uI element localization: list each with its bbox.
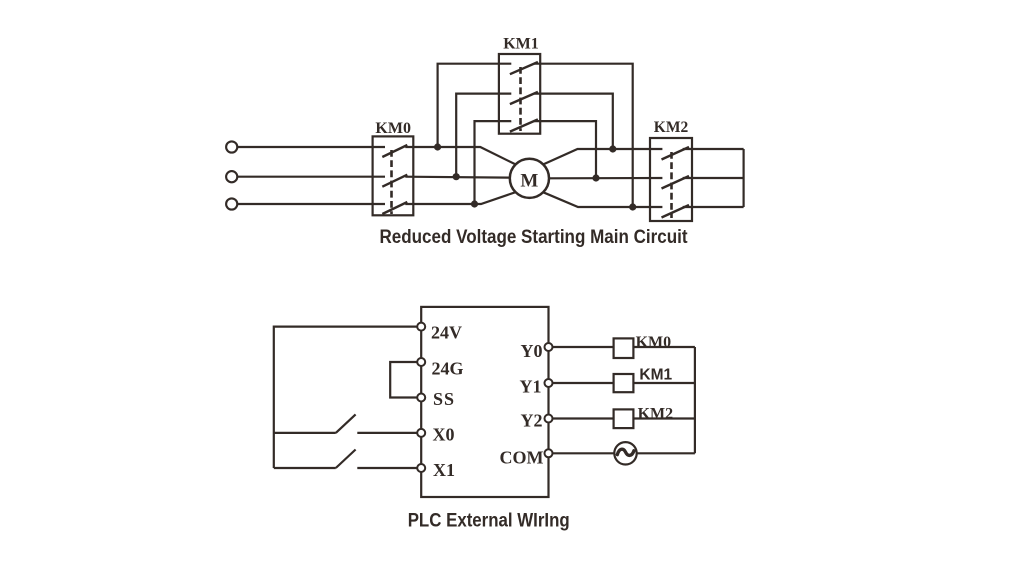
wire L3 to KM0 [237, 203, 385, 205]
contactor KM0 [373, 136, 414, 215]
wire motor to KM2 phase2 [549, 177, 662, 180]
svg-text:KM1: KM1 [503, 36, 539, 53]
wire KM1 contact1 to phase3 right [534, 64, 633, 207]
terminal SS [417, 394, 425, 402]
wire KM0 out phase1 to motor [405, 147, 515, 164]
terminal L3 [226, 198, 237, 209]
AC source [614, 442, 636, 464]
junction phase1-KM1 [434, 143, 441, 150]
wire AC source to right bus [637, 452, 695, 454]
wire coil KM0 to right bus [633, 346, 695, 348]
contactor KM1 [499, 54, 540, 134]
contactor KM2 [650, 138, 692, 221]
right bus [694, 347, 696, 453]
wire phase3 up to KM1 contact3 [475, 121, 512, 204]
svg-text:PLC External WIrIng: PLC External WIrIng [408, 511, 570, 532]
svg-text:24V: 24V [431, 323, 462, 343]
wire phase2 up to KM1 contact2 [456, 94, 511, 177]
junction phase2-KM1 [453, 173, 460, 180]
svg-text:KM0: KM0 [636, 334, 672, 351]
wire coil KM2 to right bus [633, 417, 695, 419]
wire phase1 up to KM1 contact1 [438, 64, 512, 147]
wire X1 left lead [274, 467, 336, 469]
coil KM1 [614, 374, 634, 392]
svg-text:KM0: KM0 [375, 120, 411, 137]
svg-text:Y0: Y0 [521, 341, 543, 361]
svg-text:COM: COM [500, 448, 544, 468]
wire KM1 contact2 to phase1 right [534, 94, 613, 149]
terminal L2 [226, 171, 237, 182]
terminal COM [545, 449, 553, 457]
wire KM1 contact3 to phase2 right [534, 121, 596, 178]
svg-text:KM2: KM2 [638, 406, 674, 423]
terminal X0 [417, 429, 425, 437]
wire Y2 to coil KM2 [553, 417, 614, 419]
terminal L1 [226, 141, 237, 152]
wire L1 to KM0 [237, 146, 385, 148]
PLC box [421, 307, 548, 497]
svg-text:KM2: KM2 [654, 119, 689, 136]
terminal Y0 [545, 343, 553, 351]
wire KM2 out phase2 [683, 177, 744, 179]
switch X0 blade [336, 414, 356, 433]
wire KM2 out phase1 [683, 148, 744, 150]
wire coil KM1 to right bus [633, 382, 695, 384]
svg-text:Y1: Y1 [520, 377, 542, 397]
svg-text:Reduced Voltage Starting Main: Reduced Voltage Starting Main Circuit [380, 227, 689, 248]
star point bar [742, 149, 744, 207]
coil KM2 [614, 409, 634, 428]
svg-text:KM1: KM1 [639, 367, 672, 384]
wire motor to KM2 phase1 [543, 149, 662, 164]
wire KM2 out phase3 [683, 206, 744, 208]
junction phase2 right [592, 174, 599, 181]
wire KM0 out phase2 to motor [405, 176, 510, 179]
svg-text:X1: X1 [433, 460, 455, 480]
terminal X1 [417, 464, 425, 472]
terminal 24V [417, 323, 425, 331]
wire X0 left lead [274, 432, 336, 434]
wire 24G-SS bracket [390, 362, 417, 398]
wire KM0 out phase3 to motor [405, 192, 515, 204]
wire motor to KM2 phase3 [543, 192, 662, 207]
wire COM to AC source [553, 452, 615, 454]
junction phase1 right [609, 145, 616, 152]
wire Y1 to coil KM1 [553, 382, 614, 384]
wire L2 to KM0 [237, 176, 385, 178]
svg-text:SS: SS [433, 389, 455, 409]
terminal 24G [417, 358, 425, 366]
svg-text:M: M [520, 171, 538, 192]
wire X1 right lead [357, 467, 417, 469]
junction phase3 right [629, 203, 636, 210]
wire 24V to left bus [274, 327, 417, 468]
svg-text:24G: 24G [432, 359, 464, 379]
svg-text:X0: X0 [433, 425, 455, 445]
terminal Y1 [545, 379, 553, 387]
junction phase3-KM1 [471, 200, 478, 207]
svg-text:Y2: Y2 [521, 411, 543, 431]
wire Y0 to coil KM0 [553, 346, 614, 348]
coil KM0 [614, 338, 634, 358]
wire X0 right lead [357, 432, 417, 434]
motor M [510, 159, 549, 198]
terminal Y2 [545, 415, 553, 423]
switch X1 blade [336, 450, 356, 469]
